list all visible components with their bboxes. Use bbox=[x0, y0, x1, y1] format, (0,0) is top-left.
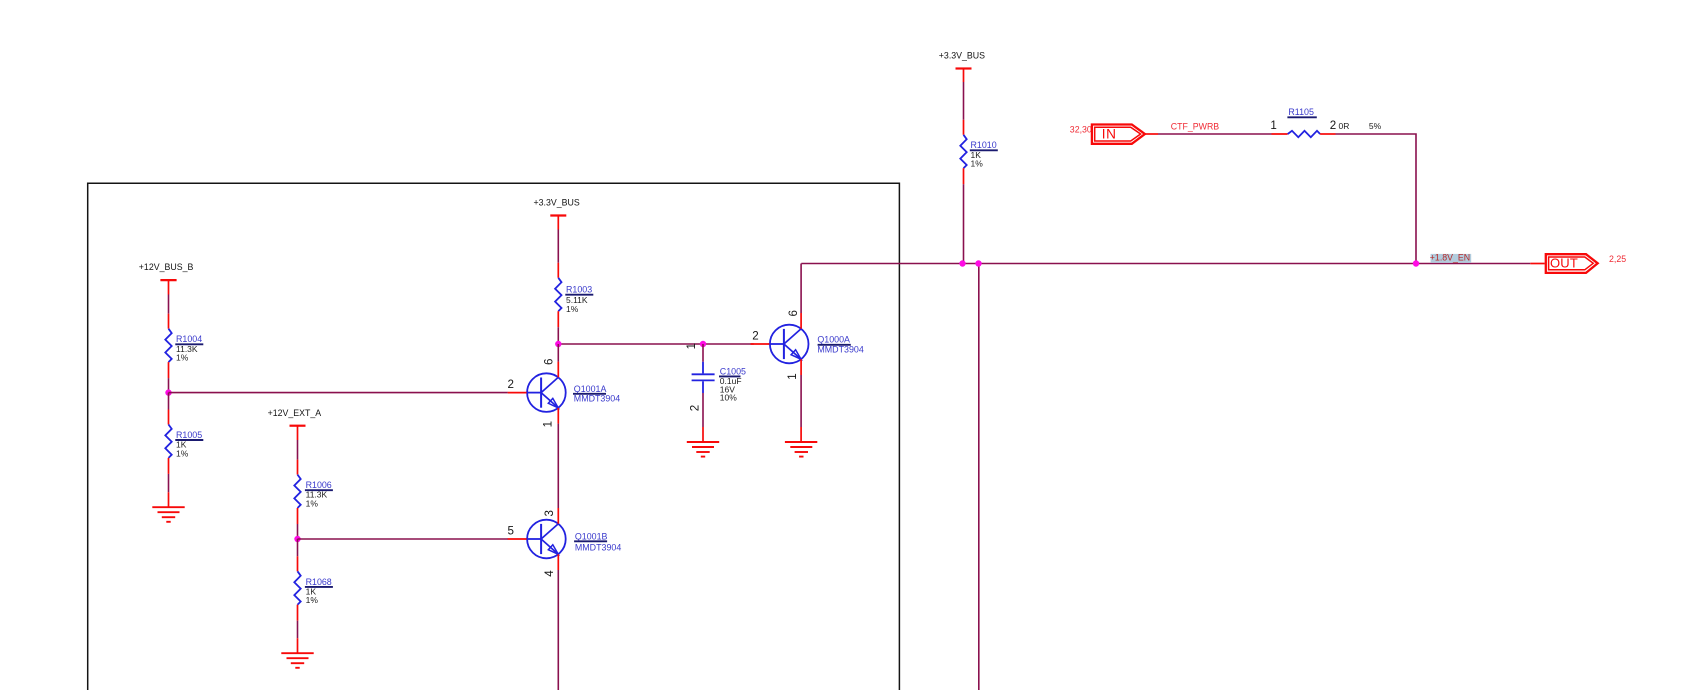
ground (Q1000A emitter) bbox=[785, 427, 817, 457]
junction at vertical stub bbox=[975, 260, 981, 266]
junction R1006/R1068/base net bbox=[294, 536, 300, 542]
ground (R1005) bbox=[152, 492, 184, 522]
svg-text:R1003: R1003 bbox=[566, 285, 592, 295]
svg-text:0R: 0R bbox=[1339, 121, 1350, 131]
svg-text:2: 2 bbox=[508, 378, 514, 391]
wire junction to Q1001B base bbox=[298, 538, 509, 540]
svg-text:2: 2 bbox=[1330, 119, 1336, 132]
capacitor C1005 0.1uF 16V 10% bbox=[685, 343, 746, 411]
main horizontal net +1.8V_EN bbox=[801, 263, 1530, 265]
wire C1005 to ground bbox=[702, 393, 704, 427]
svg-text:1: 1 bbox=[1270, 119, 1276, 132]
wire junction to R1068 bbox=[297, 539, 299, 556]
junction R1003/Q1001A/base net bbox=[555, 341, 561, 347]
svg-text:1%: 1% bbox=[971, 158, 984, 168]
resistor R1005 1K 1% bbox=[165, 410, 203, 474]
svg-text:1%: 1% bbox=[176, 352, 189, 362]
svg-text:1%: 1% bbox=[306, 595, 319, 605]
svg-text:10%: 10% bbox=[720, 392, 737, 402]
svg-text:4: 4 bbox=[543, 570, 556, 577]
svg-text:5: 5 bbox=[508, 525, 514, 538]
transistor Q1001A MMDT3904 bbox=[508, 359, 621, 428]
power +3.3V_BUS (right column) bbox=[939, 50, 985, 82]
svg-text:+1.8V_EN: +1.8V_EN bbox=[1430, 252, 1470, 262]
ground (R1068) bbox=[281, 638, 313, 668]
wire junction to Q1000A base bbox=[558, 343, 754, 345]
svg-text:+12V_EXT_A: +12V_EXT_A bbox=[268, 408, 322, 418]
svg-text:2: 2 bbox=[689, 405, 702, 411]
svg-text:+3.3V_BUS: +3.3V_BUS bbox=[939, 50, 985, 60]
svg-text:3: 3 bbox=[543, 510, 556, 516]
wire R1003 to junction bbox=[557, 327, 559, 344]
svg-text:+12V_BUS_B: +12V_BUS_B bbox=[139, 262, 194, 272]
svg-text:CTF_PWRB: CTF_PWRB bbox=[1171, 121, 1220, 131]
transistor Q1001B MMDT3904 bbox=[508, 508, 622, 577]
wire Q1000A emitter to ground bbox=[800, 375, 802, 427]
resistor R1004 11.3K 1% bbox=[165, 314, 203, 378]
wire junction to R1005 bbox=[168, 393, 170, 410]
wire junction to Q1001A base bbox=[169, 392, 508, 394]
svg-text:1: 1 bbox=[541, 421, 554, 427]
svg-text:MMDT3904: MMDT3904 bbox=[575, 542, 621, 552]
wire +12V_EXT_A to R1006 bbox=[297, 440, 299, 460]
resistor R1006 11.3K 1% bbox=[294, 460, 333, 524]
wire Q1001A emitter to Q1001B collector bbox=[557, 424, 559, 508]
svg-text:OUT: OUT bbox=[1550, 256, 1578, 271]
resistor R1068 1K 1% bbox=[294, 556, 333, 620]
vertical net stub down from junction bbox=[978, 264, 980, 690]
wire R1005 to ground bbox=[168, 474, 170, 492]
svg-text:5%: 5% bbox=[1369, 121, 1382, 131]
svg-text:1%: 1% bbox=[566, 304, 579, 314]
svg-text:C1005: C1005 bbox=[720, 366, 746, 376]
svg-text:Q1001B: Q1001B bbox=[575, 531, 608, 541]
power +3.3V_BUS (inside box) bbox=[534, 198, 580, 230]
junction at R1105 branch bbox=[1413, 260, 1419, 266]
svg-text:MMDT3904: MMDT3904 bbox=[574, 394, 620, 404]
svg-text:R1105: R1105 bbox=[1288, 107, 1314, 117]
svg-text:Q1000A: Q1000A bbox=[817, 335, 850, 345]
wire R1006 to junction bbox=[297, 524, 299, 539]
svg-text:MMDT3904: MMDT3904 bbox=[817, 344, 863, 354]
svg-text:R1068: R1068 bbox=[306, 577, 332, 587]
junction at R1010 tap bbox=[959, 260, 965, 266]
svg-text:1%: 1% bbox=[176, 449, 189, 459]
svg-text:1: 1 bbox=[786, 373, 799, 379]
wire R1010 to main net bbox=[963, 184, 965, 263]
net label +1.8V_EN (highlighted) bbox=[1430, 252, 1471, 262]
svg-text:R1010: R1010 bbox=[971, 140, 997, 150]
power +12V_EXT_A bbox=[268, 408, 322, 440]
hierarchical block border box bbox=[88, 183, 900, 690]
wire Q1000A collector up to main net bbox=[800, 264, 802, 314]
wire R1105 to corner down to main net bbox=[1336, 134, 1417, 264]
resistor R1010 1K 1% bbox=[960, 120, 998, 184]
wire +3.3V_BUS to R1003 bbox=[557, 230, 559, 263]
svg-text:Q1001A: Q1001A bbox=[574, 384, 607, 394]
junction C1005 tap bbox=[700, 341, 706, 347]
wire Q1001A collector to junction bbox=[557, 344, 559, 362]
ground (C1005) bbox=[687, 427, 719, 457]
svg-text:2: 2 bbox=[752, 330, 758, 343]
wire +12V_BUS_B to R1004 bbox=[168, 295, 170, 314]
svg-text:1%: 1% bbox=[306, 498, 319, 508]
wire R1068 to ground bbox=[297, 621, 299, 639]
svg-text:IN: IN bbox=[1102, 127, 1117, 142]
wire net +3.3V_BUS to R1010 bbox=[963, 82, 965, 120]
port IN bbox=[1070, 124, 1158, 143]
power +12V_BUS_B bbox=[139, 262, 194, 295]
wire R1004 to junction bbox=[168, 378, 170, 393]
svg-text:1: 1 bbox=[685, 343, 698, 349]
svg-text:6: 6 bbox=[787, 310, 800, 316]
svg-text:+3.3V_BUS: +3.3V_BUS bbox=[534, 198, 580, 208]
transistor Q1000A MMDT3904 bbox=[751, 310, 864, 380]
wire net CTF_PWRB bbox=[1158, 133, 1272, 135]
svg-text:32,30: 32,30 bbox=[1070, 124, 1092, 134]
wire Q1001B emitter down bbox=[557, 570, 559, 690]
junction R1004/R1005/base net bbox=[165, 389, 171, 395]
port OUT bbox=[1530, 254, 1626, 273]
resistor R1105 0R 5% bbox=[1270, 107, 1381, 137]
svg-text:R1004: R1004 bbox=[176, 334, 202, 344]
svg-text:6: 6 bbox=[542, 359, 555, 365]
resistor R1003 5.11K 1% bbox=[555, 263, 593, 327]
svg-text:R1006: R1006 bbox=[306, 480, 332, 490]
svg-text:R1005: R1005 bbox=[176, 430, 202, 440]
svg-text:2,25: 2,25 bbox=[1609, 254, 1626, 264]
